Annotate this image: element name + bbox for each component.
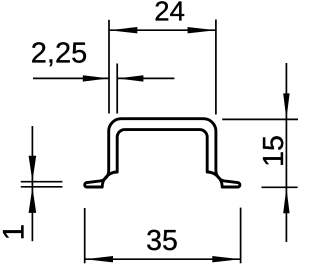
dimension 35: right arrowhead bbox=[212, 256, 240, 262]
dimension 15: dimension line bbox=[285, 63, 287, 242]
dimension 1: upper extension line bbox=[21, 181, 63, 183]
dimension 24: dimension line bbox=[109, 29, 216, 31]
svg-text:35: 35 bbox=[146, 225, 178, 257]
dimension 1: dimension line bbox=[31, 126, 33, 241]
dimension 24: right arrowhead bbox=[188, 27, 216, 33]
dimension 15: bottom extension line bbox=[262, 186, 298, 188]
dimension 1: lower extension line bbox=[21, 186, 63, 188]
dimension 1: upper arrowhead pointing down bbox=[29, 156, 37, 182]
svg-text:1: 1 bbox=[0, 224, 31, 240]
dimension 35: right extension line bbox=[240, 208, 242, 264]
svg-text:24: 24 bbox=[154, 0, 185, 27]
dimension 2,25: left arrowhead pointing right bbox=[83, 75, 109, 81]
svg-text:2,25: 2,25 bbox=[31, 37, 87, 69]
dimension 2,25: leader line left bbox=[33, 77, 109, 79]
dimension 2,25: right arrowhead pointing left bbox=[117, 75, 143, 81]
dimension 24: extension line left (shared with 2,25) bbox=[108, 20, 110, 114]
dimension 35: left extension line bbox=[84, 208, 86, 263]
hat profile rail cross-section outline bbox=[85, 119, 240, 187]
dimension 2,25: tail line right bbox=[117, 77, 174, 79]
dimension 1: lower arrowhead pointing up bbox=[29, 187, 37, 213]
svg-text:15: 15 bbox=[258, 135, 290, 167]
dimension 35: dimension line bbox=[85, 258, 241, 260]
dimension 15: upper arrowhead pointing down bbox=[283, 93, 289, 119]
dimension 15: lower arrowhead pointing up bbox=[283, 188, 289, 214]
dimension 15: top extension line bbox=[222, 118, 298, 120]
dimension 35: left arrowhead bbox=[85, 256, 113, 262]
dimension 24: left arrowhead bbox=[109, 27, 137, 33]
dimension 24: extension line right bbox=[215, 20, 217, 115]
dimension 2,25: extension line right bbox=[116, 64, 118, 114]
